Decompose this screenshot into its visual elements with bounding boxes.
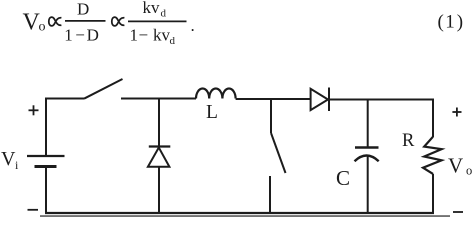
svg-text:o: o	[466, 164, 472, 178]
svg-text:−: −	[139, 26, 149, 45]
plus sign left	[29, 105, 39, 115]
svg-text:.: .	[191, 16, 195, 35]
wire top rail (switch contact to inductor)	[121, 98, 196, 100]
inductor L	[196, 88, 236, 98]
proportional-to symbol 1	[49, 17, 62, 26]
svg-text:1: 1	[445, 11, 455, 32]
svg-text:L: L	[206, 102, 218, 123]
resistor R branch	[423, 100, 442, 215]
svg-text:−: −	[75, 26, 85, 45]
equation Vo term	[23, 10, 46, 36]
switch S2 vertical branch	[270, 99, 286, 214]
label Vi	[1, 148, 19, 172]
wire bottom rail	[45, 212, 434, 214]
svg-text:d: d	[161, 7, 167, 19]
diode D2 series	[311, 88, 329, 112]
fraction D over 1-D	[64, 0, 105, 45]
diode D1 shunt branch	[148, 99, 170, 214]
svg-text:1: 1	[130, 26, 139, 45]
svg-text:): )	[457, 11, 463, 32]
svg-text:o: o	[39, 20, 46, 35]
switch S1 blade	[84, 79, 123, 99]
svg-text:d: d	[170, 35, 176, 47]
svg-text:V: V	[1, 148, 16, 170]
scan shadow under bottom rail	[40, 215, 450, 217]
svg-text:D: D	[87, 26, 99, 45]
minus sign left	[28, 209, 39, 211]
svg-text:kv: kv	[143, 0, 161, 17]
fraction kvd over 1-kvd	[128, 0, 195, 47]
svg-text:(: (	[438, 11, 444, 32]
proportional-to symbol 2	[112, 17, 125, 26]
wire top rail left (battery to switch)	[45, 98, 84, 100]
minus sign right	[453, 211, 463, 213]
svg-text:kv: kv	[153, 26, 171, 45]
voltage source Vi battery	[27, 98, 65, 215]
plus sign right	[452, 108, 461, 117]
svg-text:1: 1	[64, 26, 73, 45]
wire top rail (diode to right corner)	[329, 99, 434, 101]
wire top rail (inductor to diode)	[236, 98, 311, 100]
svg-text:R: R	[402, 131, 415, 151]
equation number (1)	[438, 11, 464, 32]
capacitor C branch	[355, 100, 379, 214]
svg-text:V: V	[448, 154, 463, 178]
label Vo	[448, 154, 472, 178]
svg-text:C: C	[336, 166, 350, 190]
svg-text:D: D	[77, 0, 89, 19]
